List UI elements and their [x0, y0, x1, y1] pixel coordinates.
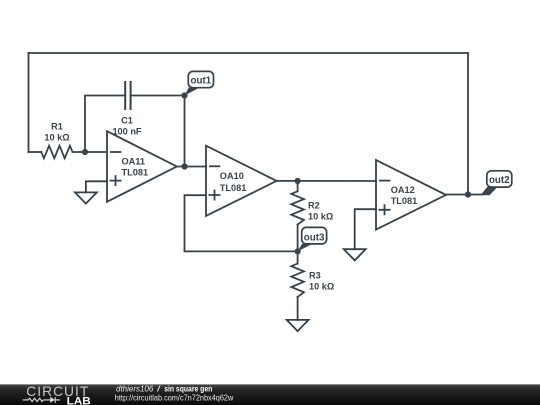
svg-text:R2: R2: [308, 201, 320, 211]
op-amp OA10: [206, 146, 277, 216]
resistor R3: [291, 264, 304, 297]
OA12 value label: [391, 196, 418, 206]
wire feedback right vertical: [467, 53, 469, 195]
wire feedback top horizontal: [29, 52, 469, 54]
net flag out1: [185, 71, 214, 95]
node out3 junction dot: [295, 248, 301, 254]
svg-text:TL081: TL081: [220, 183, 247, 193]
R2 reference label: [308, 201, 320, 211]
svg-text:10 kΩ: 10 kΩ: [308, 211, 333, 221]
svg-text:dthiers106 / sin square gen: dthiers106 / sin square gen: [116, 385, 212, 394]
footer title text: [115, 385, 234, 403]
footer bar: [0, 384, 540, 405]
node out1 junction dot: [181, 92, 187, 98]
OA10 reference label: [220, 171, 244, 181]
OA11 minus pin symbol: [111, 151, 121, 153]
ground at R3: [287, 320, 309, 331]
node A junction dot: [82, 149, 88, 155]
R2 value label: [308, 211, 333, 221]
svg-text:10 kΩ: 10 kΩ: [44, 132, 69, 142]
OA12 plus pin symbol: [379, 205, 389, 214]
svg-text:R1: R1: [51, 121, 63, 131]
R1 value label: [44, 132, 69, 142]
svg-text:OA12: OA12: [391, 185, 415, 195]
svg-text:http://circuitlab.com/c7n72nbx: http://circuitlab.com/c7n72nbx4q62w: [115, 394, 234, 403]
svg-text:TL081: TL081: [391, 196, 418, 206]
C1 reference label: [121, 115, 133, 125]
svg-text:LAB: LAB: [67, 396, 91, 405]
wire OA12 output: [446, 194, 482, 196]
OA11 reference label: [122, 156, 146, 166]
OA12 minus pin symbol: [380, 180, 390, 182]
wire OA10 output to OA12 inverting input: [277, 180, 377, 182]
svg-text:TL081: TL081: [122, 167, 149, 177]
svg-text:R3: R3: [309, 270, 321, 280]
OA10 value label: [220, 183, 247, 193]
wire OA11 plus input to ground: [86, 181, 107, 192]
OA11 plus pin symbol: [110, 176, 120, 185]
R1 reference label: [51, 121, 63, 131]
OA10 minus pin symbol: [210, 165, 220, 167]
OA12 reference label: [391, 185, 415, 195]
wire out1 node down to OA11 output: [184, 96, 186, 167]
wire R3 top lead: [297, 251, 299, 263]
svg-text:100 nF: 100 nF: [112, 126, 141, 136]
R3 value label: [309, 282, 334, 292]
net flag out3: [298, 227, 327, 251]
resistor R2: [291, 191, 304, 224]
svg-text:10 kΩ: 10 kΩ: [309, 282, 334, 292]
op-amp OA11: [107, 131, 177, 202]
wire OA10 plus input feedback to out3 node: [185, 195, 298, 251]
net flag out2: [481, 171, 512, 196]
wire R1 right lead to OA11 inverting input: [73, 151, 108, 153]
wire R3 bottom lead to ground: [297, 297, 299, 320]
R3 reference label: [309, 270, 321, 280]
wire node A up to C1: [85, 96, 125, 153]
wire OA12 plus input to ground: [355, 209, 376, 249]
wire feedback left vertical: [28, 53, 30, 152]
OA11 value label: [122, 167, 149, 177]
svg-text:OA11: OA11: [122, 156, 146, 166]
svg-text:out2: out2: [489, 175, 510, 186]
svg-text:out3: out3: [304, 232, 325, 243]
node OA10 output junction dot: [295, 178, 301, 184]
capacitor C1: [125, 82, 130, 109]
wire R1 left lead: [29, 151, 42, 153]
node out2 junction dot: [465, 191, 471, 197]
wire R2 bottom lead to out3 node: [297, 225, 299, 252]
wire OA11 output to OA10 inverting input: [177, 166, 206, 168]
wire C1 right lead to out1 node: [131, 95, 185, 97]
svg-text:OA10: OA10: [220, 171, 244, 181]
ground at OA11: [75, 192, 97, 203]
svg-text:C1: C1: [121, 115, 133, 125]
wire R2 top lead: [297, 181, 299, 191]
CircuitLab logo: [23, 384, 91, 405]
ground at OA12: [344, 249, 366, 260]
OA10 plus pin symbol: [209, 190, 219, 199]
node OA11 output junction dot: [181, 163, 187, 169]
C1 value label: [112, 126, 141, 136]
svg-text:out1: out1: [191, 75, 212, 86]
resistor R1: [41, 146, 72, 159]
op-amp OA12: [376, 160, 446, 230]
